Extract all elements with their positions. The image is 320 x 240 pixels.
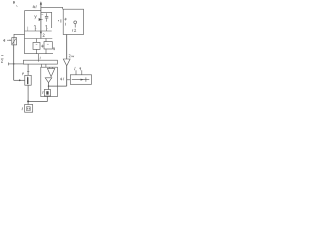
label 2: [43, 34, 45, 37]
diode D1 on bus: [39, 14, 44, 21]
label 1 left of Q1: [42, 91, 44, 94]
wire A3 output down: [66, 66, 68, 86]
label 1 inside U2: [64, 23, 66, 26]
valve V1 (box with plunger): [25, 75, 31, 85]
wire box C bottom: [36, 49, 38, 53]
op-amp A2 (triangle): [45, 78, 52, 83]
motor M1 (bottom box): [25, 105, 33, 113]
junction node bottom: [27, 100, 29, 102]
lead wire 2 with hook: [34, 25, 36, 31]
bus wire through U1: [40, 12, 42, 38]
wire U2 to amplifier A3: [66, 35, 68, 60]
wire bar to amplifier box (right lead): [45, 64, 47, 67]
label 4 right of box D: [53, 47, 55, 50]
label 12 inside U2: [73, 29, 77, 32]
wire R1 down: [13, 45, 15, 80]
stub wire S1 to A3 output wire: [67, 79, 71, 81]
wire V1 down: [27, 85, 29, 104]
node rail 1: [25, 30, 52, 32]
amplifier A3 (triangle): [63, 59, 70, 66]
node rail 2: [25, 38, 53, 40]
wire Q1 bottom to junction: [28, 96, 47, 101]
wire box D top: [45, 39, 47, 42]
wire left edge of block U1: [24, 11, 26, 54]
lead wire 3 with hook: [46, 25, 48, 31]
label 2 at left edge: [1, 59, 4, 63]
pin label i: [74, 67, 77, 70]
wire rail3 to bus-bar: [37, 54, 39, 62]
tick on V1 wire: [27, 70, 29, 72]
driver box Q1: [44, 90, 50, 97]
bus-bar (long box): [23, 60, 57, 64]
node rail 3: [25, 53, 54, 55]
junction node on R1 wire: [13, 63, 14, 64]
control unit U2 (top right box): [63, 9, 83, 34]
supply bus wire with arrow up: [40, 1, 42, 12]
label 2w near wire: [69, 54, 74, 57]
wire A2 output down: [48, 83, 50, 90]
label y (inside U1): [35, 15, 37, 19]
actuating wire to valve V1: [14, 79, 25, 81]
figure number squiggle (top left): [13, 1, 17, 7]
label 1 near wire: [39, 57, 41, 60]
wire box D bottom: [45, 49, 47, 54]
wire input to bus-bar: [9, 63, 24, 65]
arrow symbol inside S1: [72, 77, 90, 81]
terminal pin 1 of sensor box: [75, 70, 77, 75]
relay box D: [44, 42, 52, 49]
box A partial outline (top-right cell of U1): [41, 12, 52, 28]
left edge tick label: [1, 55, 3, 57]
label 4 inside U2: [65, 18, 67, 21]
potentiometer R1: [12, 38, 17, 45]
label 41 right of U3: [60, 78, 64, 81]
arrowhead down on bus: [40, 32, 42, 35]
label t left of V1: [22, 72, 24, 75]
lamp L1 inside U2: [74, 21, 77, 28]
lead wire 1 to node rail: [27, 27, 29, 31]
label 1 left of M1: [21, 107, 23, 110]
pin label 9: [80, 68, 81, 71]
op-amp A1 (triangle): [47, 67, 54, 76]
label 4 right of box C: [42, 45, 44, 48]
amplifier unit box U3: [41, 67, 58, 96]
wire top edge of block U1: [25, 10, 41, 12]
wire R1 top to U1: [14, 34, 25, 37]
wire bottom horizontal to node: [49, 85, 67, 87]
label left of U2: [58, 19, 61, 22]
wire from bus to control unit U2: [41, 6, 63, 8]
input terminal tick: [8, 63, 10, 66]
sensor box S1 (bottom right): [70, 75, 91, 85]
wire into U2 top corner: [62, 7, 64, 9]
label 41: [33, 5, 36, 8]
wire box C top: [36, 39, 38, 43]
relay box C: [33, 42, 40, 49]
capacitor C1 (inside box A): [45, 13, 48, 21]
label 4 with leader arrow (potentiometer): [3, 39, 11, 42]
wire bar to amplifier box (left lead): [41, 64, 43, 67]
junction node: [48, 85, 49, 86]
terminal pin 2 of sensor box: [81, 70, 83, 75]
wire bus-bar to V1: [27, 64, 29, 75]
